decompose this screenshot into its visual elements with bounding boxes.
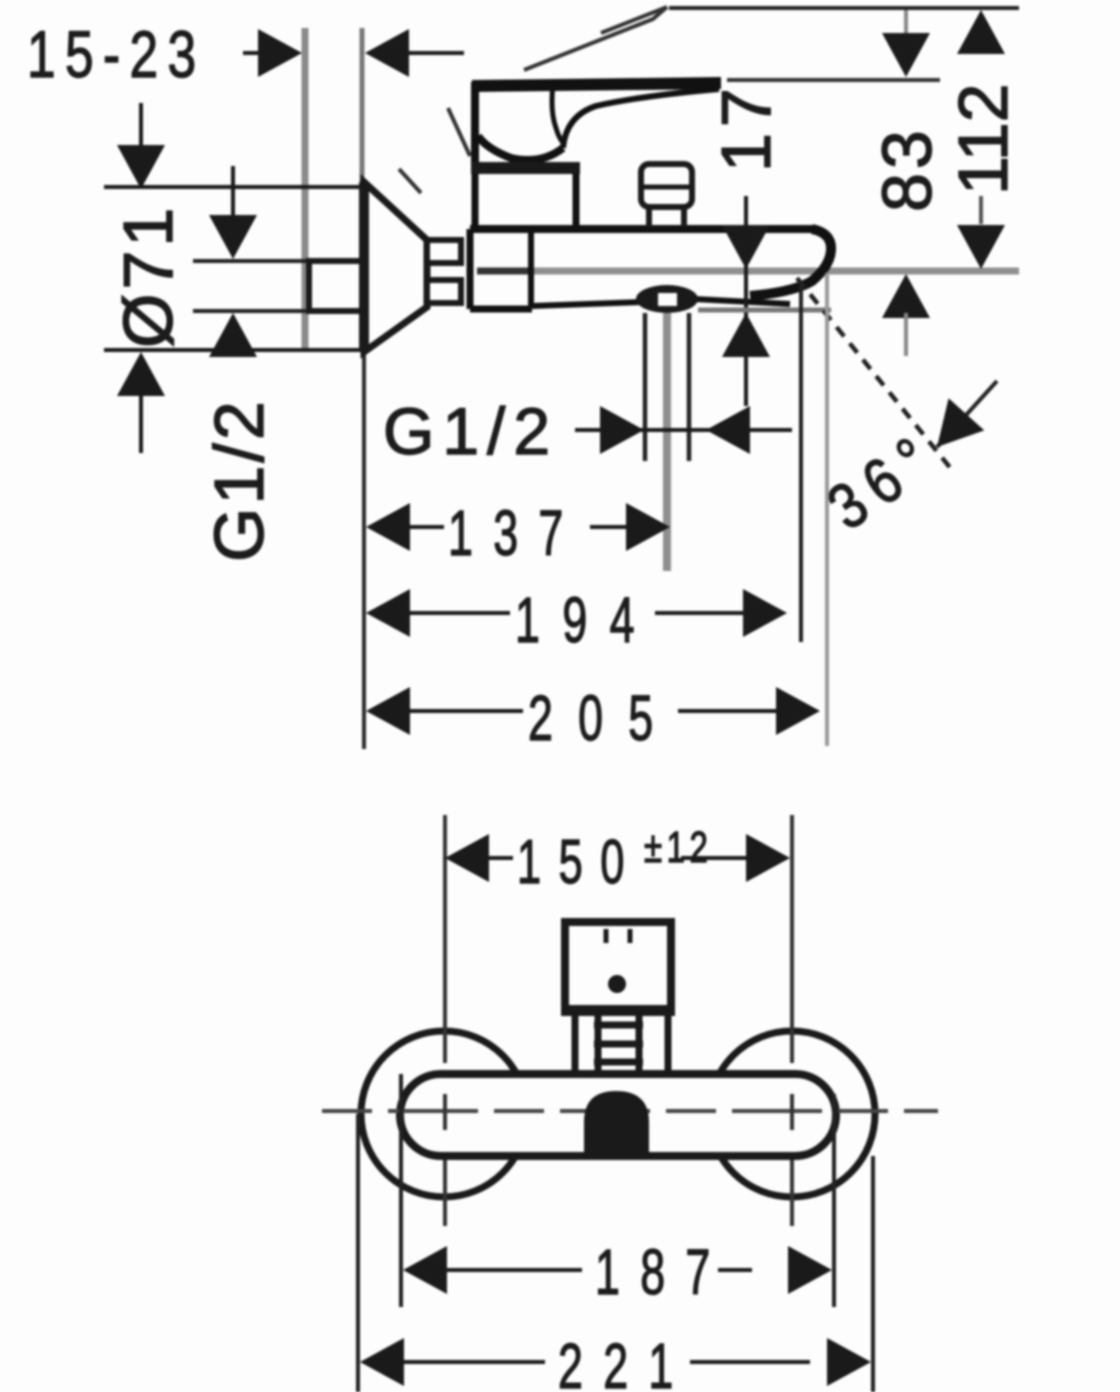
svg-text:83: 83 <box>868 126 946 212</box>
svg-text:Ø71: Ø71 <box>109 204 187 348</box>
svg-text:150: 150 <box>517 829 642 897</box>
svg-text:15-23: 15-23 <box>27 17 205 92</box>
svg-text:221: 221 <box>558 1330 694 1392</box>
svg-text:G1/2: G1/2 <box>383 394 558 468</box>
svg-text:112: 112 <box>944 83 1022 195</box>
svg-text:17: 17 <box>707 82 785 172</box>
svg-text:G1/2: G1/2 <box>200 398 278 562</box>
svg-text:137: 137 <box>448 497 584 569</box>
svg-text:187: 187 <box>595 1236 731 1308</box>
svg-text:194: 194 <box>515 584 657 656</box>
svg-text:±12: ±12 <box>644 824 712 873</box>
svg-text:205: 205 <box>528 682 678 754</box>
